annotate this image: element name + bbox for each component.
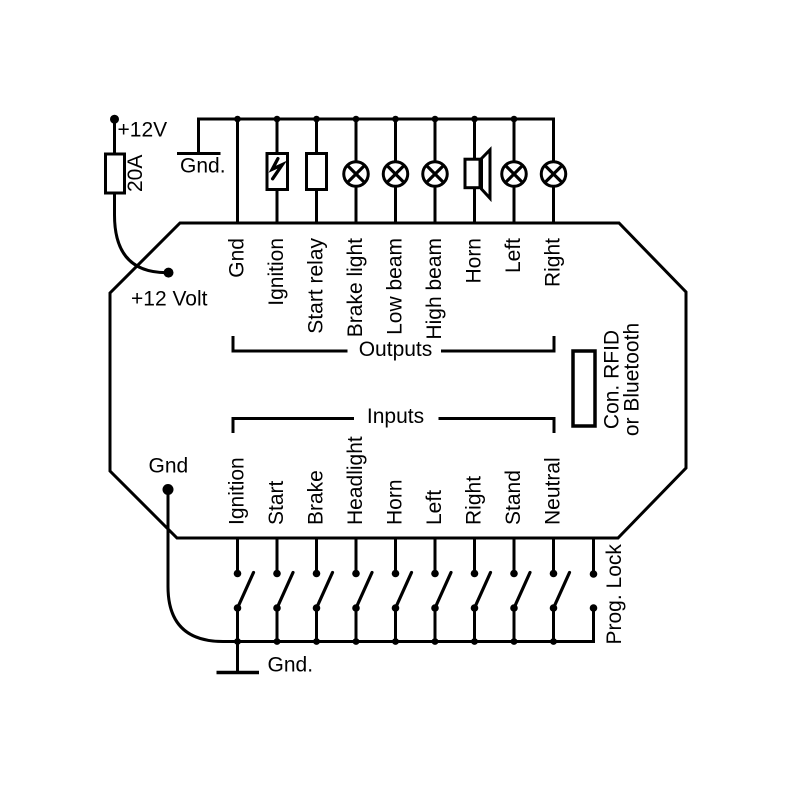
svg-text:Horn: Horn [384, 479, 407, 525]
svg-text:Gnd.: Gnd. [180, 155, 226, 178]
svg-text:Stand: Stand [502, 470, 525, 525]
svg-text:Ignition: Ignition [226, 457, 249, 525]
svg-text:Gnd: Gnd [226, 238, 249, 278]
svg-text:Headlight: Headlight [344, 436, 367, 525]
svg-text:Prog. Lock: Prog. Lock [603, 544, 626, 645]
svg-text:20A: 20A [124, 155, 147, 192]
svg-text:Left: Left [423, 490, 446, 525]
svg-text:+12 Volt: +12 Volt [131, 288, 208, 311]
svg-text:Gnd.: Gnd. [268, 654, 314, 677]
svg-text:Brake: Brake [305, 470, 328, 525]
svg-text:+12V: +12V [118, 119, 168, 142]
svg-text:Neutral: Neutral [542, 457, 565, 525]
svg-text:Gnd: Gnd [149, 454, 189, 477]
svg-text:Low beam: Low beam [384, 238, 407, 335]
svg-text:Start relay: Start relay [305, 238, 328, 334]
svg-text:or Bluetooth: or Bluetooth [621, 323, 644, 436]
svg-text:Outputs: Outputs [359, 338, 433, 361]
svg-text:Right: Right [542, 238, 565, 287]
svg-text:Left: Left [502, 238, 525, 273]
svg-text:Right: Right [463, 476, 486, 525]
svg-text:High beam: High beam [423, 238, 446, 340]
svg-text:Ignition: Ignition [265, 238, 288, 306]
svg-text:Start: Start [265, 480, 288, 525]
svg-text:Brake light: Brake light [344, 238, 367, 337]
svg-text:Inputs: Inputs [367, 405, 424, 428]
svg-text:Horn: Horn [463, 238, 486, 284]
